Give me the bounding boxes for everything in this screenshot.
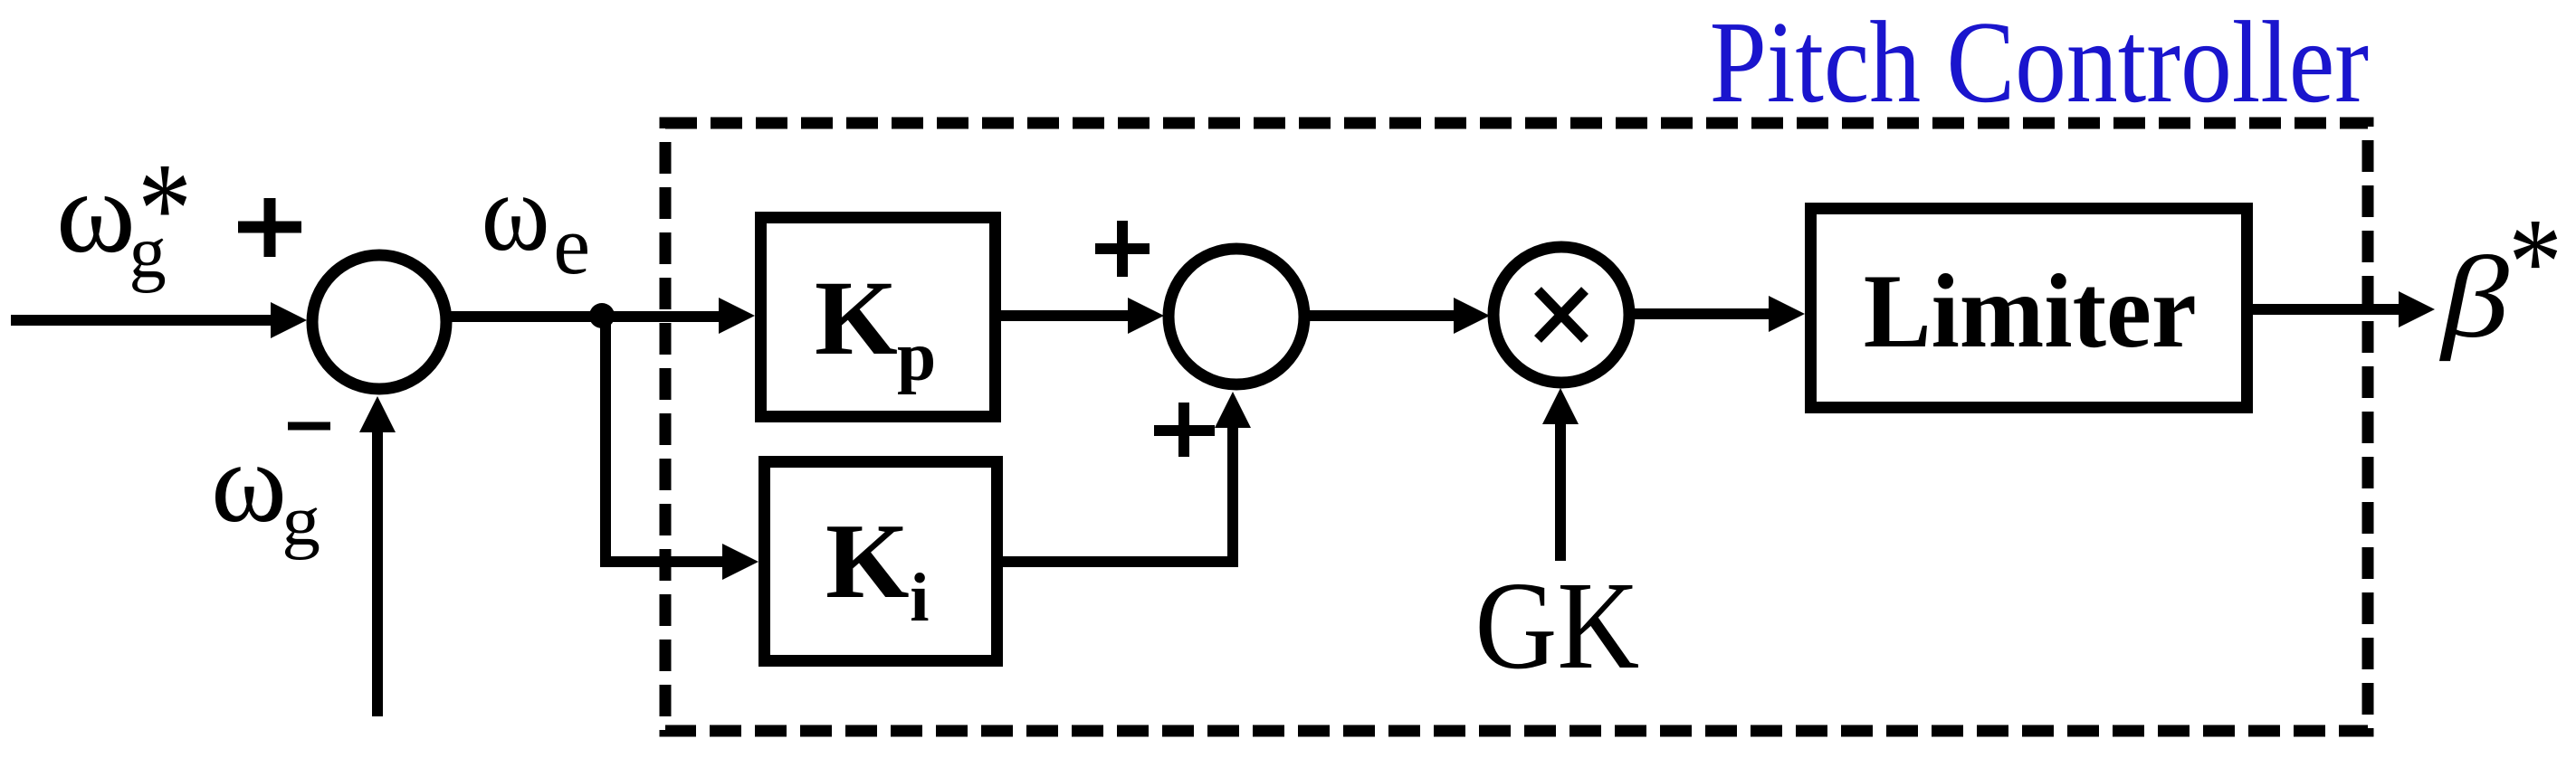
minus sign at summer S1 feedback input [288, 422, 330, 431]
wire feedback arrow into summer S1 bottom [359, 396, 396, 716]
multiplier M1 [1493, 247, 1629, 383]
plus sign at summer S2 bottom input [1154, 403, 1215, 457]
wire summer S2 output into multiplier with arrow [1309, 298, 1490, 334]
summing junction S1 [312, 255, 446, 389]
wire multiplier output into Limiter with arrow [1633, 296, 1805, 332]
wire Limiter output arrow to beta_star [2251, 291, 2435, 327]
label Pitch Controller [1710, 0, 2369, 128]
svg-text:ω: ω [56, 147, 136, 278]
svg-text:ω: ω [482, 150, 550, 274]
svg-text:e: e [553, 199, 590, 291]
svg-text:K: K [815, 259, 898, 377]
block Kp [761, 218, 996, 417]
svg-text:ω: ω [211, 418, 287, 546]
wire GK up into multiplier with arrow [1542, 388, 1579, 561]
svg-text:Pitch Controller: Pitch Controller [1710, 0, 2369, 128]
junction dot node omega_e [589, 303, 615, 328]
node omega_g label [211, 418, 320, 560]
svg-text:GK: GK [1475, 555, 1640, 695]
dashed box pitch controller boundary [665, 123, 2368, 731]
svg-text:g: g [281, 481, 320, 560]
wire input arrow into summer S1 [11, 302, 307, 338]
label GK [1475, 555, 1640, 695]
plus sign at summer S2 left input [1095, 221, 1150, 277]
plus sign at summer S1 input [238, 198, 301, 257]
svg-text:β: β [2438, 233, 2509, 362]
wire Ki output up into summer S2 with arrow [1001, 392, 1251, 562]
svg-text:*: * [2508, 193, 2562, 333]
svg-text:*: * [138, 135, 192, 281]
svg-text:p: p [897, 317, 936, 395]
block Limiter [1811, 209, 2247, 408]
wire junction down and right into block Ki with arrow [600, 311, 758, 580]
wire summer S1 output to junction node [445, 311, 724, 322]
svg-text:i: i [910, 559, 929, 636]
svg-text:Limiter: Limiter [1864, 252, 2197, 370]
node beta_star label [2438, 193, 2562, 363]
svg-text:K: K [825, 501, 910, 621]
wire Kp output into summer S2 with arrow [999, 298, 1164, 334]
wire junction into block Kp with arrow [719, 298, 755, 334]
summing junction S2 [1169, 249, 1304, 384]
node omega_g_star label [56, 135, 192, 293]
block Ki [765, 462, 997, 661]
node omega_e label [482, 150, 591, 292]
